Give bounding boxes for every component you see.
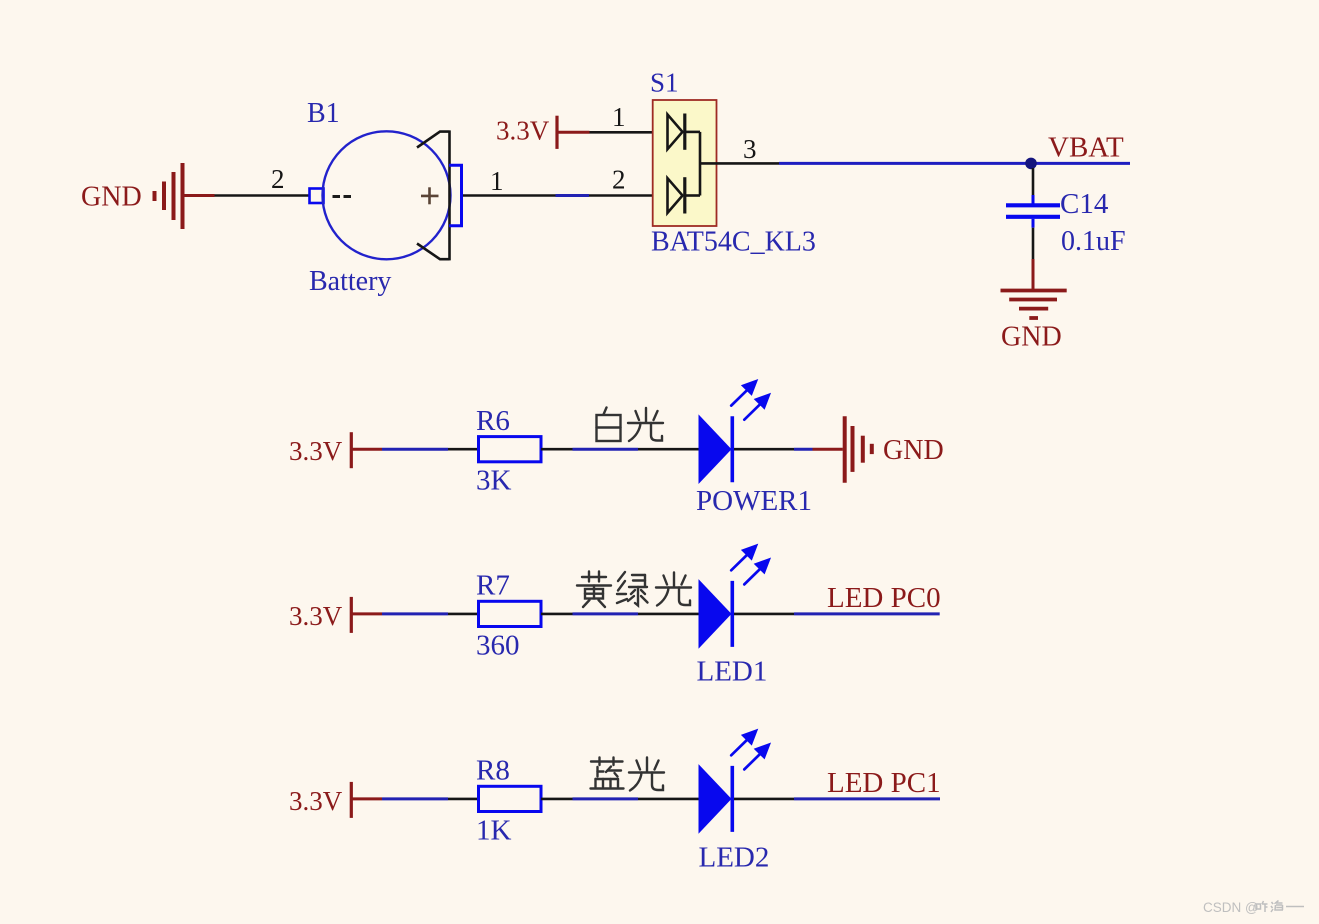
power bar 3.3V (top) bbox=[555, 116, 558, 149]
capacitor C14 plates bbox=[1006, 205, 1060, 217]
diode D-top of S1 bbox=[668, 114, 701, 150]
svg-text:Battery: Battery bbox=[309, 266, 391, 297]
wire row 3 to LED anode bbox=[638, 798, 699, 801]
wire row 3 net LED PC1 (blue) bbox=[794, 797, 940, 800]
wire S1 internal cathode join bbox=[699, 132, 702, 196]
svg-text:GND: GND bbox=[81, 182, 142, 213]
LED LED2 cathode bar bbox=[730, 766, 734, 832]
wire row 1 blue segment 2 bbox=[573, 448, 639, 451]
wire GND stub (maroon) bbox=[1032, 259, 1035, 290]
label 白光 (white light) bbox=[597, 408, 621, 442]
wire row 2 blue segment 1 bbox=[382, 612, 448, 615]
wire row 1 blue segment 3 bbox=[794, 448, 813, 451]
svg-text:POWER1: POWER1 bbox=[696, 485, 812, 517]
wire row 3 resistor to LED (black 1) bbox=[541, 798, 573, 801]
wire 3.3V stub row 3 (maroon) bbox=[351, 797, 382, 800]
svg-text:GND: GND bbox=[1001, 322, 1062, 353]
svg-text:BAT54C_KL3: BAT54C_KL3 bbox=[651, 227, 816, 258]
wire battery pin1 to S1 (black) bbox=[463, 194, 556, 197]
wire VBAT (blue) bbox=[779, 162, 1130, 165]
wire row 2 to LED anode bbox=[638, 613, 699, 616]
wire into S1 pin 1 bbox=[590, 131, 669, 134]
resistor R6 bbox=[479, 437, 542, 462]
power bar 3.3V (row 2) bbox=[350, 597, 353, 633]
battery B1 positive bracket (blue) bbox=[449, 165, 462, 226]
wire row 3 LED cathode out bbox=[734, 798, 794, 801]
wire row 3 blue segment 1 bbox=[382, 797, 448, 800]
svg-text:0.1uF: 0.1uF bbox=[1061, 226, 1126, 257]
svg-text:1: 1 bbox=[490, 166, 504, 196]
svg-text:3.3V: 3.3V bbox=[496, 116, 550, 146]
ground symbol GND (battery negative) bbox=[155, 163, 183, 229]
resistor R7 bbox=[479, 601, 542, 626]
svg-text:R7: R7 bbox=[476, 570, 510, 602]
battery B1 minus marks bbox=[333, 195, 352, 198]
svg-text:3K: 3K bbox=[476, 465, 512, 497]
wire C14 top lead (blue) bbox=[1032, 195, 1035, 204]
svg-text:2: 2 bbox=[271, 164, 285, 194]
wire battery pin 2 bbox=[215, 194, 310, 197]
svg-text:R8: R8 bbox=[476, 755, 510, 787]
power bar 3.3V (row 1) bbox=[350, 432, 353, 468]
wire row 2 resistor to LED (black 1) bbox=[541, 613, 573, 616]
wire C14 bottom lead (blue) bbox=[1032, 219, 1035, 228]
LED POWER1 emission arrows bbox=[731, 380, 770, 420]
wire S1 pin3 out (black) bbox=[700, 162, 779, 165]
wire row 3 into resistor bbox=[448, 798, 479, 801]
wire row 1 GND stub (maroon) bbox=[813, 448, 843, 451]
ground symbol GND (row 1) bbox=[845, 416, 872, 483]
battery B1 terminal square (pin 2) bbox=[310, 189, 324, 204]
wire into S1 pin 2 bbox=[589, 194, 668, 197]
wire VBAT to C14 (black) bbox=[1032, 168, 1035, 195]
wire row 2 blue segment 2 bbox=[573, 612, 639, 615]
diode D-bottom of S1 bbox=[668, 177, 701, 213]
wire C14 to GND (black) bbox=[1032, 228, 1035, 259]
svg-text:VBAT: VBAT bbox=[1048, 132, 1124, 164]
diode pack S1 body (yellow box) bbox=[653, 100, 717, 226]
svg-text:CSDN @: CSDN @ bbox=[1203, 900, 1259, 915]
LED LED1 emission arrows bbox=[731, 545, 770, 585]
wire battery pin1 to S1 (blue segment) bbox=[556, 194, 590, 197]
wire row 2 into resistor bbox=[448, 613, 479, 616]
svg-text:3.3V: 3.3V bbox=[289, 436, 343, 466]
svg-text:3.3V: 3.3V bbox=[289, 786, 343, 816]
label 黄绿光 (yellow-green light) bbox=[577, 572, 611, 608]
junction node VBAT bbox=[1025, 158, 1037, 170]
LED LED1 cathode bar bbox=[730, 581, 734, 647]
battery B1 holder clip (black) bbox=[417, 130, 450, 260]
svg-text:GND: GND bbox=[883, 435, 944, 466]
battery B1 plus mark bbox=[421, 187, 439, 204]
wire row 1 blue segment 1 bbox=[382, 448, 448, 451]
ground symbol GND (under C14) bbox=[1001, 291, 1067, 319]
wire row 1 to LED anode bbox=[638, 448, 699, 451]
svg-text:LED PC0: LED PC0 bbox=[827, 582, 941, 614]
label 蓝光 (blue light) bbox=[591, 758, 624, 789]
LED POWER1 cathode bar bbox=[730, 416, 734, 482]
wire row 2 LED cathode out bbox=[734, 613, 794, 616]
LED POWER1 triangle bbox=[699, 414, 732, 484]
svg-text:3: 3 bbox=[743, 134, 757, 164]
svg-text:1: 1 bbox=[612, 102, 626, 132]
svg-text:LED2: LED2 bbox=[699, 842, 770, 874]
svg-text:R6: R6 bbox=[476, 405, 510, 437]
svg-text:3.3V: 3.3V bbox=[289, 601, 343, 631]
svg-text:C14: C14 bbox=[1060, 188, 1109, 220]
wire 3.3V stub row 1 (maroon) bbox=[351, 448, 382, 451]
wire row 1 LED cathode out bbox=[734, 448, 794, 451]
svg-text:2: 2 bbox=[612, 165, 626, 195]
power bar 3.3V (row 3) bbox=[350, 782, 353, 818]
wire row 1 into resistor bbox=[448, 448, 479, 451]
wire 3.3V stub (maroon) bbox=[557, 131, 590, 134]
svg-text:B1: B1 bbox=[307, 98, 340, 129]
LED LED2 triangle bbox=[699, 764, 732, 834]
wire 3.3V stub row 2 (maroon) bbox=[351, 612, 382, 615]
svg-text:LED PC1: LED PC1 bbox=[827, 767, 941, 799]
LED LED2 emission arrows bbox=[731, 730, 770, 770]
svg-text:360: 360 bbox=[476, 629, 520, 661]
LED LED1 triangle bbox=[699, 579, 732, 649]
svg-text:LED1: LED1 bbox=[697, 656, 768, 688]
wire row 1 resistor to LED (black 1) bbox=[541, 448, 573, 451]
wire row 3 blue segment 2 bbox=[573, 797, 639, 800]
wire GND stub (maroon) bbox=[184, 194, 215, 197]
resistor R8 bbox=[479, 786, 542, 811]
svg-text:S1: S1 bbox=[650, 68, 679, 98]
battery B1 body circle bbox=[323, 131, 451, 259]
wire row 2 net LED PC0 (blue) bbox=[794, 612, 940, 615]
svg-text:1K: 1K bbox=[476, 814, 512, 846]
